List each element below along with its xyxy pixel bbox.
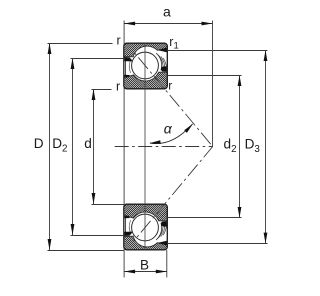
extension line d top: [92, 89, 112, 91]
dimension D2 line: [71, 58, 75, 235]
arc arrowhead right: [184, 124, 193, 133]
svg-text:α: α: [164, 121, 173, 137]
wire: left face vertical line full height: [123, 21, 125, 278]
svg-text:r: r: [116, 79, 120, 93]
extension line D top: [48, 43, 113, 45]
extension line D2 top: [71, 58, 124, 60]
extension line D bottom: [48, 250, 124, 252]
extension line d2 bottom: [167, 217, 241, 219]
contact line upper dash-dot: [133, 51, 213, 146]
extension line D3 top: [167, 50, 267, 52]
contact line lower dash-dot: [133, 147, 213, 242]
svg-text:B: B: [140, 257, 149, 272]
extension line d2 top: [167, 75, 241, 77]
svg-text:a: a: [163, 4, 171, 20]
svg-text:d: d: [84, 136, 92, 151]
svg-text:D: D: [34, 136, 44, 151]
extension line d bottom: [92, 204, 124, 206]
angle arc alpha: [150, 124, 193, 144]
axis center line dash-dot: [115, 146, 213, 148]
bottom bearing section (mirror): [103, 203, 207, 251]
arc arrowhead left: [149, 140, 161, 144]
dimension d line: [92, 89, 96, 204]
wire: right face B extension: [166, 250, 168, 278]
wire: apex extension vertical: [212, 21, 214, 147]
dimension d2 line: [238, 75, 242, 218]
top bearing section: [103, 42, 207, 90]
dimension a: [124, 22, 212, 26]
svg-text:r: r: [168, 78, 172, 92]
extension line D2 bottom: [71, 235, 124, 237]
extension line D3 bottom: [167, 243, 267, 245]
dimension B: [124, 270, 167, 274]
dimension D3 line: [264, 50, 268, 244]
dimension D line: [48, 43, 52, 250]
wire: radial ball-pitch line: [144, 43, 146, 250]
svg-text:r: r: [117, 34, 121, 48]
